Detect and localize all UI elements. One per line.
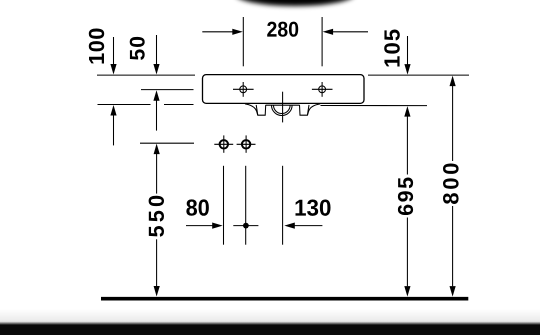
washbasin body outline (203, 75, 365, 104)
right shelf extension line (321, 105, 428, 107)
dim 130 arrow (284, 223, 322, 229)
tap hole left (233, 82, 254, 97)
apron left wing (245, 104, 258, 115)
drain inner arc (274, 105, 291, 113)
label 695 (398, 178, 413, 216)
bottom light grey ramp (0, 309, 540, 322)
apron left tab (256, 105, 266, 115)
bottom dark bar fade (0, 322, 540, 326)
tap hole right (312, 82, 333, 97)
left rim-bottom extension line a (98, 104, 151, 106)
apron shelf line (266, 104, 300, 106)
dim 800 line upper segment with up arrow (450, 76, 456, 161)
dim 695 line upper segment with up arrow (404, 106, 410, 174)
dim 695 line lower segment with down arrow (404, 218, 410, 297)
floor line (101, 297, 468, 301)
label 80 (186, 199, 209, 215)
label 800 (443, 163, 459, 204)
lower dim extension line centerline (282, 166, 284, 245)
dim 280 extension line right (321, 17, 323, 66)
dim 280 right arrow (323, 29, 368, 35)
dim 50 upper arrow (153, 35, 159, 75)
label 105 (384, 30, 400, 67)
dim 50 lower arrow (153, 90, 159, 130)
right rim-top extension line (368, 74, 469, 76)
dim 550 line upper segment with up arrow (154, 144, 160, 194)
drain outer arc (272, 105, 293, 115)
mounting hole right (237, 135, 256, 152)
dim 105 arrow (404, 36, 410, 75)
apron right tab (300, 105, 310, 115)
dim 100 lower arrow (110, 105, 116, 145)
left rim-bottom extension line b (164, 104, 194, 106)
label 100 (89, 29, 104, 64)
left rim-top extension line (97, 74, 195, 76)
apron right wing (308, 104, 321, 115)
bottom dark bar (0, 325, 540, 335)
label 280 (267, 22, 298, 37)
dim 550 line lower segment with down arrow (154, 239, 160, 296)
dim 100 upper arrow (110, 37, 116, 75)
dim 280 left arrow (202, 29, 243, 35)
lower dim extension line hole1 (223, 166, 225, 245)
dim 800 line lower segment with down arrow (450, 206, 456, 297)
label 550 (149, 196, 164, 237)
page top shadow smudge (235, 0, 355, 6)
lower dim extension line hole2 (245, 166, 247, 245)
dim dot on hole2 line (233, 223, 258, 229)
left tap-level extension line (141, 89, 194, 91)
label 130 (296, 200, 331, 216)
centerline through drain (282, 92, 284, 123)
dim 280 extension line left (242, 17, 244, 66)
left mounting-level extension line (140, 142, 194, 144)
dim 80 arrow (186, 223, 223, 229)
label 50 (130, 37, 145, 60)
mounting hole left (214, 135, 233, 152)
